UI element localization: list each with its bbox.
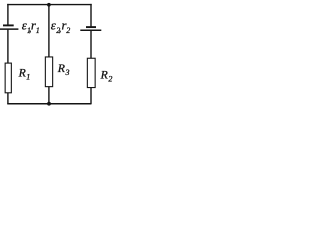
svg-text:R: R bbox=[100, 68, 108, 81]
label R3 bbox=[57, 62, 70, 77]
label R1 bbox=[18, 66, 31, 81]
wire top horizontal bbox=[7, 4, 92, 6]
wire bottom horizontal bbox=[7, 103, 91, 105]
resistor R2 body bbox=[87, 58, 95, 87]
wire left vertical lower bbox=[7, 30, 9, 63]
battery E2 long thin plate bbox=[80, 29, 101, 31]
svg-text:R: R bbox=[57, 62, 65, 75]
junction dot top node bbox=[47, 3, 51, 7]
wire right vertical lower bbox=[90, 31, 92, 59]
wire below R2 bbox=[90, 88, 92, 105]
svg-text:2: 2 bbox=[108, 74, 112, 83]
wire left vertical upper bbox=[7, 4, 9, 25]
wire below R3 bbox=[48, 87, 50, 104]
resistor R3 body bbox=[45, 57, 52, 87]
svg-text:1: 1 bbox=[26, 72, 30, 81]
battery E2 short thick plate bbox=[86, 26, 96, 28]
battery E1 long thin plate bbox=[0, 28, 18, 30]
svg-text:3: 3 bbox=[65, 68, 70, 77]
wire below R1 bbox=[7, 93, 9, 104]
wire right vertical upper bbox=[90, 4, 92, 27]
resistor R1 body bbox=[5, 63, 11, 93]
label R2 bbox=[100, 68, 113, 83]
battery E1 short thick plate bbox=[3, 24, 14, 26]
junction dot bottom node bbox=[47, 102, 51, 106]
svg-text:2: 2 bbox=[66, 26, 70, 35]
svg-text:R: R bbox=[18, 66, 26, 79]
svg-text:1: 1 bbox=[36, 26, 40, 35]
wire middle vertical upper bbox=[48, 5, 50, 57]
label epsilon1,r1 bbox=[22, 19, 40, 35]
label epsilon2,r2 bbox=[51, 19, 70, 35]
